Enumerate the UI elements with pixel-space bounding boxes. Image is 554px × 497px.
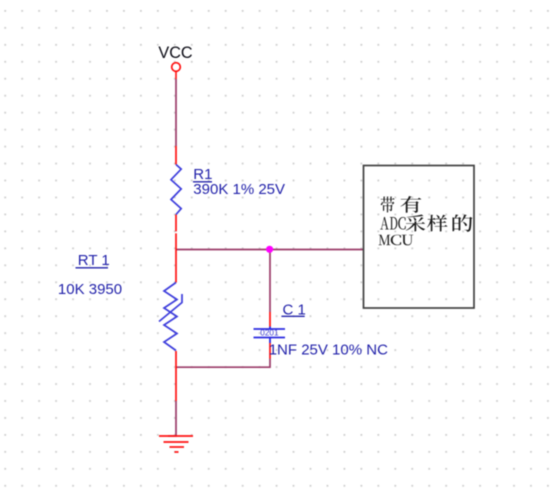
svg-text:VCC: VCC [158, 44, 192, 62]
svg-text:390K 1% 25V: 390K 1% 25V [193, 181, 285, 198]
svg-text:1NF 25V 10% NC: 1NF 25V 10% NC [269, 341, 388, 358]
svg-text:10K 3950: 10K 3950 [58, 281, 122, 298]
svg-text:RT 1: RT 1 [78, 252, 110, 269]
svg-text:0201: 0201 [260, 329, 279, 338]
